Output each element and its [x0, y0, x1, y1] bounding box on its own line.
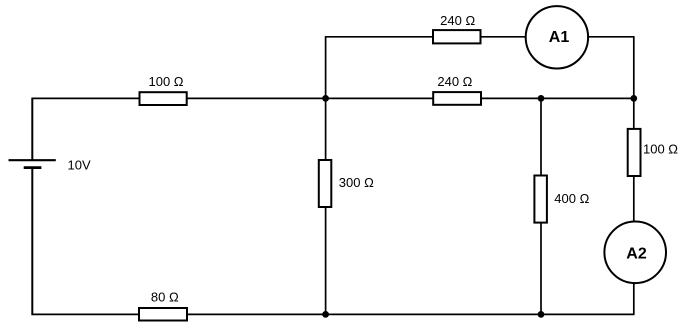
ammeter A2 — [604, 222, 666, 284]
wire: bottom rail right segment (R2 to right column) — [187, 313, 634, 315]
wire: right column middle (R7 to A2) — [633, 176, 635, 222]
wire: top branch middle segment (R3 to A1) — [481, 36, 527, 38]
svg-text:100 Ω: 100 Ω — [643, 142, 678, 157]
wire: main rail middle segment (R1 to R4) — [187, 97, 434, 99]
wire: bottom rail left segment (battery - to R2) — [32, 313, 139, 315]
wire: main rail left segment (battery + to R1) — [32, 97, 140, 99]
node: 400-ohm column x bottom rail — [538, 311, 545, 318]
svg-text:300 Ω: 300 Ω — [339, 175, 374, 190]
resistor R4 240 ohm (main rail horizontal) — [433, 74, 481, 105]
ammeter A1 — [526, 6, 588, 68]
svg-text:A2: A2 — [626, 245, 647, 262]
svg-text:100 Ω: 100 Ω — [148, 74, 183, 89]
svg-text:240 Ω: 240 Ω — [437, 74, 472, 89]
wire: main rail right segment (R4 to right column) — [481, 97, 634, 99]
wire: top branch right segment (A1 to right column) — [588, 36, 634, 38]
resistor R7 100 ohm (right vertical) — [628, 129, 679, 176]
wire: middle column lower (R5 to bottom rail) — [325, 207, 327, 315]
wire: right column lower (A2 to bottom rail) — [633, 283, 635, 315]
svg-text:240 Ω: 240 Ω — [440, 13, 475, 28]
svg-text:10V: 10V — [68, 157, 91, 172]
node: middle column x main rail — [322, 95, 329, 102]
wire: 400-ohm column upper (main rail to R6) — [540, 98, 542, 175]
resistor R5 300 ohm (middle vertical) — [319, 160, 374, 207]
wire: left column upper (top rail down to battery +) — [31, 98, 33, 161]
node: middle column x bottom rail — [322, 311, 329, 318]
resistor R2 80 ohm (bottom horizontal) — [139, 289, 187, 320]
svg-text:400 Ω: 400 Ω — [554, 191, 589, 206]
wire: middle column upper (top branch to R5) — [325, 36, 327, 160]
resistor R3 240 ohm (top branch horizontal) — [433, 13, 481, 43]
node: 400-ohm column x main rail — [538, 95, 545, 102]
wire: 400-ohm column lower (R6 to bottom rail) — [540, 223, 542, 316]
svg-text:A1: A1 — [549, 29, 570, 46]
node: right column x main rail — [630, 95, 637, 102]
resistor R1 100 ohm (top left horizontal) — [140, 74, 187, 105]
wire: top branch left segment (node to R3) — [326, 36, 433, 38]
battery V1 — [9, 160, 56, 167]
wire: left column lower (battery - down to bottom rail) — [31, 168, 33, 316]
svg-text:80 Ω: 80 Ω — [151, 289, 179, 304]
wire: right column upper (top branch to R7) — [633, 36, 635, 129]
resistor R6 400 ohm (vertical) — [534, 176, 589, 223]
